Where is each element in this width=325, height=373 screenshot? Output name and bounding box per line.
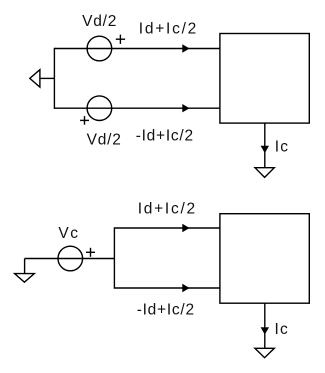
svg-text:Vd/2: Vd/2 [87, 131, 122, 148]
arrow Ic (down, top circuit) [261, 146, 268, 152]
wire Vc to rail (through V3) [25, 258, 115, 260]
box U2 (device under test, bottom) [220, 214, 309, 304]
arrow Id+Ic/2 (top wire) [183, 45, 189, 52]
svg-text:Ic: Ic [275, 139, 289, 156]
wire left rail [53, 48, 55, 109]
wire bottom (rail to box, bottom circuit) [114, 287, 219, 289]
ground (left, bottom circuit) [15, 274, 35, 283]
wire top (left rail to box, through V1) [54, 48, 220, 50]
box U1 (device under test, top) [220, 34, 309, 124]
wire box bottom to ground [264, 123, 266, 168]
ground (below box, top circuit) [255, 168, 274, 178]
svg-text:Vc: Vc [58, 225, 79, 242]
svg-text:Id+Ic/2: Id+Ic/2 [139, 20, 198, 37]
arrow Id+Ic/2 (bottom circuit top wire) [183, 224, 189, 231]
arrow Ic (down, bottom circuit) [261, 328, 268, 334]
wire ground drop (left) [24, 259, 26, 274]
wire ground stub [40, 77, 55, 79]
ground (left, open triangle) [30, 70, 40, 87]
voltage source V1 Vd/2 (top) [87, 36, 112, 61]
voltage source V3 Vc [58, 246, 83, 271]
polarity + (V2) [80, 116, 89, 125]
arrow -Id+Ic/2 (bottom circuit bottom wire) [183, 284, 189, 291]
svg-text:Id+Ic/2: Id+Ic/2 [138, 200, 197, 217]
svg-text:Vd/2: Vd/2 [82, 13, 117, 30]
wire bottom (left rail to box, through V2) [54, 107, 220, 109]
polarity + (V1) [116, 35, 125, 44]
svg-text:-Id+Ic/2: -Id+Ic/2 [137, 302, 195, 319]
svg-text:-Id+Ic/2: -Id+Ic/2 [136, 128, 194, 145]
svg-text:Ic: Ic [275, 321, 289, 338]
wire top (rail to box, bottom circuit) [114, 227, 219, 229]
arrow -Id+Ic/2 (bottom wire) [183, 105, 189, 112]
voltage source V2 Vd/2 (bottom) [87, 96, 112, 121]
wire box bottom to ground (bottom circuit) [264, 303, 266, 348]
wire split rail (bottom circuit) [113, 227, 115, 288]
polarity + (V3) [86, 248, 95, 257]
ground (below box, bottom circuit) [255, 348, 274, 357]
